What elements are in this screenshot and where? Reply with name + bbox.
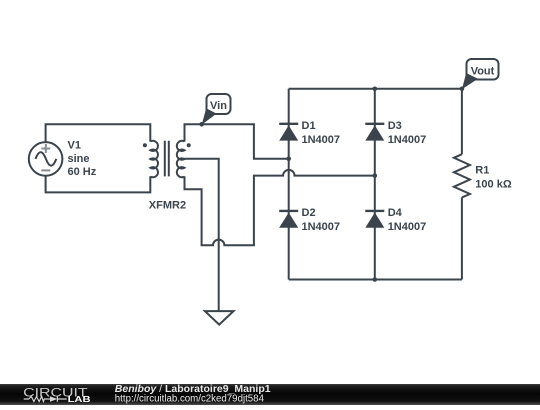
wire bridge right branch bbox=[374, 89, 376, 280]
net label Vout bbox=[462, 59, 499, 89]
wire bridge left branch bbox=[288, 89, 290, 280]
transformer XFMR2 core bbox=[165, 141, 169, 177]
node Vin junction dot bbox=[199, 122, 204, 127]
wire V1 loop top bbox=[46, 124, 151, 142]
transformer secondary phase dot bbox=[187, 143, 191, 147]
wire V1 loop bottom bbox=[46, 176, 151, 193]
svg-text:V1: V1 bbox=[68, 140, 81, 152]
wire bridge top rail bbox=[289, 88, 462, 90]
svg-text:100 kΩ: 100 kΩ bbox=[475, 179, 512, 191]
svg-text:Vout: Vout bbox=[471, 65, 495, 77]
D4 label bbox=[388, 207, 427, 233]
svg-text:D4: D4 bbox=[388, 207, 403, 219]
wire center tap to ground bbox=[185, 159, 219, 311]
svg-text:LAB: LAB bbox=[68, 394, 91, 404]
node right bridge midpoint dot bbox=[373, 173, 378, 178]
svg-text:1N4007: 1N4007 bbox=[302, 134, 341, 146]
svg-text:1N4007: 1N4007 bbox=[302, 221, 341, 233]
wire R1 top lead bbox=[461, 89, 463, 154]
resistor R1 bbox=[454, 154, 470, 197]
svg-text:1N4007: 1N4007 bbox=[388, 221, 427, 233]
wire secondary top to Vin node to left bridge node bbox=[185, 124, 289, 159]
svg-text:1N4007: 1N4007 bbox=[388, 134, 427, 146]
R1 label bbox=[475, 165, 512, 191]
diode D3 bbox=[365, 124, 384, 141]
diode D2 bbox=[279, 211, 298, 228]
V1 value label bbox=[68, 140, 97, 179]
D3 label bbox=[388, 120, 427, 146]
svg-text:D3: D3 bbox=[388, 120, 402, 132]
svg-text:sine: sine bbox=[68, 153, 90, 165]
transformer XFMR2 secondary winding bbox=[177, 141, 185, 178]
wire bridge bottom rail bbox=[289, 279, 462, 281]
node Vout junction dot bbox=[460, 87, 465, 92]
transformer XFMR2 primary winding bbox=[150, 141, 158, 178]
diode D4 bbox=[365, 211, 384, 228]
wire R1 bottom lead bbox=[461, 197, 463, 279]
svg-text:R1: R1 bbox=[475, 165, 489, 177]
svg-text:60 Hz: 60 Hz bbox=[68, 166, 97, 178]
footer bar bbox=[0, 384, 540, 405]
transformer primary phase dot bbox=[143, 143, 147, 147]
D1 label bbox=[302, 120, 341, 146]
CircuitLab logo schematic squiggle bbox=[24, 396, 67, 402]
wire secondary bottom to right bridge node (two hops) bbox=[185, 170, 375, 245]
net label Vin bbox=[202, 94, 231, 125]
node top rail D3 junction dot bbox=[373, 87, 378, 92]
svg-text:XFMR2: XFMR2 bbox=[149, 200, 186, 212]
ground bbox=[205, 311, 234, 325]
node left bridge midpoint dot bbox=[286, 157, 291, 162]
node bottom rail D4 junction dot bbox=[373, 277, 378, 282]
svg-text:http://circuitlab.com/c2ked79d: http://circuitlab.com/c2ked79djt584 bbox=[115, 393, 265, 404]
svg-text:D1: D1 bbox=[302, 120, 316, 132]
svg-text:Vin: Vin bbox=[210, 100, 227, 112]
diode D1 bbox=[279, 124, 298, 141]
svg-text:D2: D2 bbox=[302, 207, 316, 219]
voltage source V1 bbox=[29, 142, 63, 176]
D2 label bbox=[302, 207, 341, 233]
